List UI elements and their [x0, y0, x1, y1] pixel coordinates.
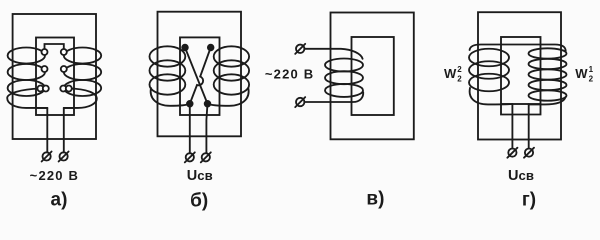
svg-text:2: 2: [457, 65, 462, 74]
bottom turn left swoosh: [7, 89, 47, 108]
bobbin: [352, 37, 394, 115]
left winding end swoosh: [470, 88, 513, 104]
junction dot bottom-left: [187, 101, 193, 107]
core T2 outer frame: [158, 12, 242, 137]
bobbin bottom flange: [501, 104, 541, 115]
winding W1 left (3 turns): [8, 48, 45, 64]
cross link TL-BR: [185, 48, 208, 104]
terminal circle-slash right: [525, 149, 533, 157]
svg-text:а): а): [51, 190, 68, 211]
terminal circle-slash top: [296, 45, 304, 53]
core T1 outer frame: [13, 14, 96, 139]
svg-text:W: W: [444, 66, 457, 81]
core T3 outer frame: [331, 13, 414, 140]
svg-text:2: 2: [589, 74, 594, 83]
winding W2-2 left (3 turns): [469, 49, 509, 67]
winding left (3 turns): [150, 46, 186, 66]
bobbin: [501, 37, 541, 104]
terminal circle-slash left: [508, 149, 516, 157]
lead wire right: [206, 104, 207, 153]
svg-text:Uсв: Uсв: [187, 168, 213, 184]
terminal symbol (circle-slash) right: [60, 152, 68, 160]
svg-text:1: 1: [589, 65, 594, 74]
svg-text:2: 2: [457, 74, 462, 83]
svg-text:б): б): [190, 191, 208, 212]
bobbin bottom inner edge: [36, 107, 74, 109]
bobbin (coil former): [36, 38, 74, 116]
top lead wire: [304, 49, 362, 59]
bottom turn right swoosh: [64, 89, 97, 108]
terminal circles: [42, 49, 48, 55]
terminal symbol (circle-slash) left: [43, 152, 51, 160]
cross link TR-BL with hop: [190, 48, 211, 104]
right winding end swoosh: [529, 97, 566, 104]
terminal circle-slash bottom: [296, 98, 304, 106]
lead wire right: [528, 104, 530, 149]
right winding end swoosh: [208, 88, 249, 106]
terminal circle-slash left: [186, 153, 194, 161]
jumper bracket between top terminals: [45, 44, 64, 49]
bobbin: [180, 37, 220, 115]
bottom lead wire: [304, 92, 363, 102]
lead wire right: [63, 108, 65, 152]
top link line between windings: [470, 45, 566, 51]
junction dot bottom-right: [205, 101, 211, 107]
winding (3 turns): [325, 59, 363, 72]
svg-text:W: W: [575, 66, 588, 81]
lead wire left: [46, 108, 48, 152]
lead wire left: [511, 104, 513, 149]
winding right (3 turns): [214, 46, 249, 66]
junction dot top-right: [208, 45, 214, 51]
junction dot top-left: [182, 45, 188, 51]
svg-text:~220 В: ~220 В: [30, 168, 79, 183]
winding W2 right (3 turns): [64, 48, 101, 64]
svg-text:в): в): [366, 189, 384, 210]
core T4 outer frame: [478, 12, 561, 139]
lead wire left: [189, 104, 191, 153]
svg-text:г): г): [522, 190, 536, 211]
left winding end swoosh: [151, 88, 190, 106]
terminal circle-slash right: [202, 153, 210, 161]
winding W2-1 right (5 turns): [529, 48, 567, 58]
svg-text:Uсв: Uсв: [508, 168, 534, 184]
svg-text:~220 В: ~220 В: [265, 66, 314, 81]
